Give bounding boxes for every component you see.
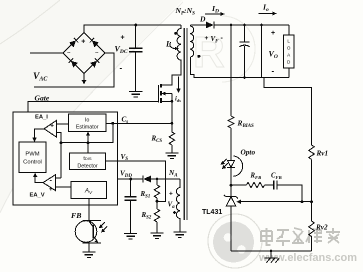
ground (phototransistor) <box>82 251 95 253</box>
wire rail after diode <box>214 24 289 26</box>
MOSFET Q1 <box>157 85 159 103</box>
node rail RBIAS tap <box>230 24 233 27</box>
TL431 U3 <box>226 196 236 198</box>
opto light arrows <box>223 159 227 163</box>
svg-text:EA_V: EA_V <box>30 193 45 199</box>
primary winding Np <box>172 25 181 85</box>
svg-text:+: + <box>81 39 85 46</box>
diode D <box>206 22 214 29</box>
aux winding NA <box>176 179 179 232</box>
secondary polarity dot <box>197 55 200 58</box>
wire VDD pin <box>118 178 144 180</box>
svg-text:Rv1: Rv1 <box>316 150 329 158</box>
wire top rail primary <box>84 25 181 33</box>
svg-text:-: - <box>120 64 123 73</box>
load box <box>288 25 290 35</box>
opto-coupler U2 LED <box>227 160 234 167</box>
tDIS Detector block <box>70 153 106 169</box>
diode Daux <box>142 176 144 183</box>
wire emitter to ground <box>88 243 90 252</box>
svg-text:Io: Io <box>85 117 90 123</box>
IC box U1 <box>13 112 118 205</box>
wire TL431 anode <box>230 206 232 251</box>
svg-text:~: ~ <box>67 51 71 57</box>
wire EA_V plus input <box>55 186 71 188</box>
resistor RBIAS <box>230 25 232 116</box>
wire EA_I minus input <box>57 132 61 178</box>
bridge diode top-left <box>69 38 78 47</box>
wire secondary return <box>190 57 289 78</box>
wire CS pin <box>106 122 172 124</box>
capacitor VDC <box>135 25 137 48</box>
node rail cap tap <box>243 24 246 27</box>
wire CFB to divider node <box>277 185 302 202</box>
svg-text:+: + <box>271 30 275 37</box>
svg-text:L: L <box>287 39 290 44</box>
ground (aux) <box>173 231 186 233</box>
Io Estimator block <box>69 114 107 131</box>
primary polarity dot <box>174 32 177 35</box>
primary return arrow under bridge <box>83 74 85 81</box>
transformer T1 core <box>183 28 185 220</box>
capacitor Co <box>244 25 246 42</box>
svg-text:-: - <box>272 67 275 76</box>
svg-text:TL431: TL431 <box>202 209 222 216</box>
mosfet body arrow <box>164 93 172 95</box>
TL431 ref arrow <box>241 201 312 203</box>
aux polarity dot <box>173 211 176 214</box>
svg-text:Gate: Gate <box>35 94 50 103</box>
wire VS pin <box>106 161 166 201</box>
svg-text:+: + <box>205 35 209 42</box>
svg-text:EA_I: EA_I <box>35 114 48 120</box>
wire secondary top rail <box>190 24 206 26</box>
wire internal CS net <box>61 123 113 142</box>
svg-text:Control: Control <box>23 160 42 166</box>
label ids arrow <box>178 77 180 90</box>
bridge diode bottom-left <box>69 58 78 67</box>
resistor RS2 <box>154 209 160 222</box>
PWM Control block <box>19 142 46 173</box>
wire secondary ground bus <box>231 250 312 252</box>
wire output port <box>261 25 263 78</box>
svg-text:+: + <box>49 186 53 193</box>
phototransistor Q2 <box>75 221 97 243</box>
resistor RS1 <box>156 179 158 185</box>
wire EA_I plus input <box>57 123 69 125</box>
svg-text:Detector: Detector <box>77 163 98 169</box>
bridge rectifier BR1 diamond <box>63 33 105 74</box>
wire EA_I output <box>35 129 45 139</box>
wire EA_V output <box>35 176 43 182</box>
capacitor CFB <box>265 184 274 186</box>
resistor RFB <box>231 184 247 186</box>
wire drain <box>161 75 172 85</box>
wire gate <box>28 102 158 142</box>
svg-text:+: + <box>121 35 125 42</box>
wire divider feed <box>264 78 312 146</box>
watermark chinese text <box>261 228 340 246</box>
ground (RS2) <box>151 232 164 234</box>
node opto cathode <box>230 168 232 197</box>
svg-text:D: D <box>199 15 206 24</box>
ground (RCS) <box>165 152 178 154</box>
capacitor CVDD <box>130 179 132 197</box>
svg-text:Opto: Opto <box>241 148 256 157</box>
svg-text:PWM: PWM <box>25 152 39 158</box>
svg-text:Rv2: Rv2 <box>315 224 328 232</box>
earth ground secondary <box>270 251 272 258</box>
ground (CVDD) <box>124 233 137 235</box>
svg-text:O: O <box>287 46 291 51</box>
Av block <box>71 181 106 198</box>
bridge diode bottom-right <box>90 58 99 67</box>
bridge diode top-right <box>90 38 99 47</box>
wire EA_V minus input <box>55 177 61 179</box>
watermark logo circle <box>208 214 262 268</box>
ground (VDC) <box>129 91 143 93</box>
node rail output tap <box>260 24 263 27</box>
op-amp EA_V <box>43 175 55 191</box>
wire source <box>161 100 172 102</box>
resistor Rv2 <box>309 221 315 236</box>
svg-text:~: ~ <box>95 51 99 57</box>
resistor RCS <box>171 101 173 132</box>
svg-text:FB: FB <box>71 211 81 220</box>
svg-text:+: + <box>169 191 173 198</box>
watermark swoosh band <box>0 0 183 213</box>
svg-text:NP:NS: NP:NS <box>175 6 196 17</box>
node VDC tap <box>134 24 137 27</box>
wire FB pin <box>88 198 90 221</box>
secondary winding Ns <box>190 25 193 57</box>
svg-text:Estimator: Estimator <box>76 125 99 131</box>
phototransistor light arrows <box>101 222 105 226</box>
resistor Rv1 <box>309 145 315 159</box>
op-amp EA_I <box>44 120 57 137</box>
VAC source wires <box>30 52 63 54</box>
